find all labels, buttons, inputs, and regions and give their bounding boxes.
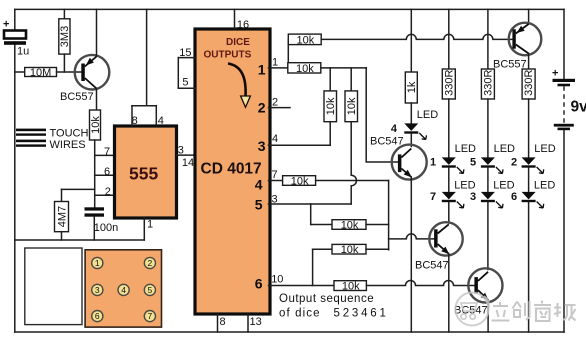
wire output1 stub	[269, 67, 289, 69]
wire 555 pins 8 and 4 to top rail	[132, 9, 156, 126]
svg-text:2: 2	[511, 157, 517, 169]
wire 4M7 top link	[62, 188, 95, 190]
svg-text:LED: LED	[494, 143, 515, 155]
wire mid column vertical	[388, 181, 390, 250]
svg-text:OUTPUTS: OUTPUTS	[204, 50, 252, 61]
svg-text:100n: 100n	[94, 222, 118, 234]
wire output1 node to Qtop base column	[321, 67, 366, 69]
svg-text:4: 4	[272, 133, 278, 145]
svg-text:7: 7	[430, 191, 436, 203]
counter U2 CD4017	[195, 29, 270, 314]
svg-text:LED: LED	[534, 143, 555, 155]
resistor R10 10k	[311, 219, 389, 231]
svg-text:10k: 10k	[341, 219, 359, 231]
resistor R13 1k	[405, 72, 418, 103]
svg-text:10k: 10k	[346, 97, 358, 115]
CD4017 output number labels	[255, 62, 266, 292]
wire top rail	[15, 8, 564, 10]
wire humped to Qbot base	[366, 281, 474, 286]
resistor R7 10k vertical	[324, 68, 337, 145]
svg-text:CD 4017: CD 4017	[201, 161, 262, 178]
svg-text:9v: 9v	[571, 99, 586, 116]
wire output6 stub	[269, 285, 335, 287]
LED D6	[511, 179, 555, 332]
svg-text:6: 6	[95, 311, 100, 321]
wire left rail	[14, 45, 16, 332]
svg-text:7: 7	[272, 169, 278, 181]
resistor R15 330R	[481, 69, 494, 99]
svg-text:330R: 330R	[443, 70, 455, 96]
capacitor C1 1u polarized	[3, 19, 29, 58]
svg-text:10k: 10k	[90, 116, 102, 134]
svg-text:7: 7	[148, 311, 153, 321]
wire output5 stub	[269, 203, 352, 205]
svg-text:LED: LED	[454, 179, 475, 191]
svg-text:TOUCH: TOUCH	[50, 128, 89, 140]
LED D1	[430, 143, 476, 192]
svg-text:1k: 1k	[406, 81, 418, 93]
svg-text:5: 5	[182, 76, 188, 88]
svg-text:10k: 10k	[342, 281, 360, 293]
svg-text:14: 14	[182, 157, 194, 169]
transistor Q5 BC557	[493, 23, 541, 71]
svg-text:LED: LED	[417, 109, 438, 121]
resistor R12 10k output6	[334, 281, 366, 293]
resistor R9 10k output4	[283, 175, 389, 187]
capacitor C2 100n	[85, 207, 119, 240]
resistor R8 10k vertical	[345, 68, 358, 204]
svg-text:3: 3	[258, 138, 266, 154]
svg-text:6: 6	[511, 191, 517, 203]
LED D7	[430, 179, 476, 223]
svg-text:4: 4	[255, 177, 263, 193]
wire output3 stub	[269, 144, 331, 146]
resistor R6 10k output1	[288, 63, 321, 75]
LED D4	[391, 109, 438, 147]
wire output5 drop to 10k	[310, 204, 312, 225]
wire rail1 top	[410, 9, 412, 72]
svg-text:330R: 330R	[482, 70, 494, 96]
wire 555 left pins vertical	[94, 140, 96, 207]
white box display blank	[25, 248, 82, 325]
svg-text:1: 1	[430, 157, 436, 169]
svg-text:2: 2	[258, 100, 266, 116]
svg-text:1: 1	[258, 62, 266, 78]
wire 555 pin7 stub	[95, 154, 115, 156]
svg-text:16: 16	[237, 19, 249, 31]
resistor R1 3M3	[59, 9, 71, 72]
battery B1 9v	[552, 68, 586, 131]
CD4017 pin16 to top rail	[235, 9, 250, 31]
svg-text:10k: 10k	[291, 175, 309, 187]
wire output4 stub handled by resistor leads	[269, 180, 283, 182]
svg-text:BC557: BC557	[60, 91, 94, 103]
svg-text:330R: 330R	[523, 70, 535, 96]
svg-text:10: 10	[271, 273, 283, 285]
wire Qmid base humped	[389, 234, 435, 239]
svg-text:+: +	[552, 68, 558, 80]
svg-text:1: 1	[147, 219, 153, 231]
wire ground return bottom left	[15, 239, 145, 241]
CD4017 pins 15 and 5 loop	[178, 47, 195, 88]
wire right rail to battery top	[563, 9, 565, 79]
svg-text:DICE: DICE	[226, 37, 250, 48]
wire link output1 to top 10k	[287, 39, 289, 68]
CD4017 pin number labels	[271, 57, 283, 286]
svg-text:4: 4	[158, 115, 164, 127]
text output sequence note	[279, 293, 386, 320]
wire humped to BC557 base	[321, 34, 512, 39]
wire rail2 mid	[448, 99, 450, 157]
svg-text:6: 6	[255, 276, 263, 292]
svg-text:4M7: 4M7	[56, 206, 68, 227]
wire 555 pin6 stub	[95, 174, 115, 176]
svg-text:2: 2	[272, 97, 278, 109]
svg-text:1u: 1u	[17, 46, 29, 58]
svg-text:1: 1	[380, 308, 386, 320]
transistor Q3 BC547	[415, 222, 463, 332]
op-amp U1 555 timer	[104, 115, 194, 231]
wire rail4 top	[528, 9, 530, 23]
svg-text:6: 6	[104, 166, 110, 178]
resistor R11 10k	[313, 244, 389, 256]
resistor R3 10k base	[90, 110, 102, 140]
dice display box	[85, 250, 161, 327]
svg-text:10k: 10k	[341, 244, 359, 256]
svg-text:10k: 10k	[325, 97, 337, 115]
wire 555 pin2 stub	[95, 194, 115, 196]
svg-text:of dice: of dice	[279, 308, 321, 320]
svg-text:2: 2	[148, 258, 153, 268]
svg-text:2: 2	[105, 186, 111, 198]
dice sequence arrow	[228, 64, 250, 108]
wire rail2 top	[448, 9, 450, 69]
svg-text:BC547: BC547	[370, 136, 404, 148]
wire rail1 mid	[410, 103, 412, 123]
wire output2 stub	[269, 107, 291, 109]
svg-text:10k: 10k	[296, 63, 314, 75]
svg-text:4: 4	[361, 308, 368, 320]
svg-text:3: 3	[470, 191, 476, 203]
resistor R16 330R	[522, 69, 535, 99]
svg-text:5: 5	[255, 197, 263, 213]
svg-text:1: 1	[95, 258, 100, 268]
svg-text:15: 15	[179, 47, 191, 59]
svg-text:LED: LED	[455, 143, 476, 155]
svg-text:LED: LED	[534, 179, 555, 191]
transistor Q2 BC547	[370, 136, 427, 333]
svg-text:5: 5	[148, 285, 153, 295]
resistor R5 10k clock line	[288, 34, 321, 46]
svg-text:2: 2	[343, 308, 349, 320]
svg-text:3: 3	[95, 285, 100, 295]
svg-text:10M: 10M	[30, 67, 51, 79]
svg-text:13: 13	[250, 316, 262, 328]
LED D3	[470, 179, 515, 269]
svg-text:10k: 10k	[297, 34, 315, 46]
svg-text:+: +	[3, 19, 9, 31]
svg-text:LED: LED	[493, 179, 514, 191]
svg-text:3: 3	[352, 308, 358, 320]
LED D2	[511, 143, 556, 192]
CD4017 pins 8 and 13 to bottom rail	[218, 314, 262, 332]
resistor R2 10M	[15, 67, 82, 79]
watermark text	[492, 301, 576, 322]
svg-text:4: 4	[121, 285, 126, 295]
svg-text:WIRES: WIRES	[50, 139, 86, 151]
transistor Q1 BC557	[60, 9, 109, 110]
wire right rail from battery bottom	[563, 130, 565, 332]
svg-text:5: 5	[470, 157, 476, 169]
wire left rail upper lead to capacitor	[14, 9, 16, 30]
svg-text:1: 1	[272, 57, 278, 69]
svg-text:Output sequence: Output sequence	[279, 293, 374, 305]
LED D5	[470, 143, 515, 192]
watermark logo	[456, 293, 489, 326]
svg-text:8: 8	[220, 316, 226, 328]
wire 555 pin1 drop	[143, 218, 145, 240]
wire bottom rail	[15, 331, 564, 333]
svg-text:7: 7	[104, 146, 110, 158]
resistor R4 4M7	[55, 189, 69, 240]
svg-text:4: 4	[391, 123, 398, 135]
wire rail3 top	[487, 9, 489, 69]
svg-text:6: 6	[370, 308, 376, 320]
wire rail3 mid	[487, 99, 489, 157]
svg-text:BC547: BC547	[415, 260, 449, 272]
wire 555 pin3 to CD4017 pin14	[177, 154, 196, 156]
svg-text:5: 5	[334, 308, 340, 320]
wire Qtop base drop	[366, 68, 398, 162]
resistor R14 330R	[442, 69, 455, 99]
transistor Q4 BC547	[454, 268, 503, 332]
wire link 10k to output6 line	[312, 249, 314, 285]
svg-text:555: 555	[129, 164, 158, 184]
svg-text:3M3: 3M3	[59, 26, 71, 47]
touch wires pads	[16, 128, 88, 151]
wire rail4 mid	[528, 99, 530, 157]
